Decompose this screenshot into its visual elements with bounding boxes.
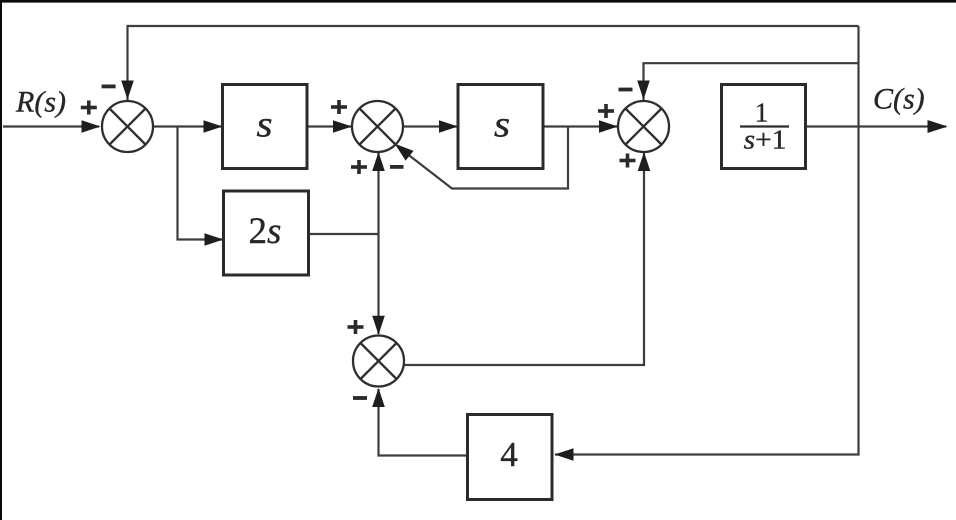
wire output C(s) <box>806 125 947 127</box>
sign plus at sum3 left <box>598 104 614 118</box>
sign plus at sum2 bottom <box>351 160 367 174</box>
wire block s2 output <box>543 125 617 127</box>
wire 2s output <box>309 233 379 235</box>
wire branch to 2s <box>178 127 223 240</box>
arrowhead up into sum4 bottom <box>372 388 385 407</box>
arrowhead into block 2s <box>205 233 224 246</box>
svg-text:1: 1 <box>755 98 769 128</box>
summing junction S1 <box>102 101 153 152</box>
svg-text:s+1: s+1 <box>744 125 787 155</box>
arrowhead into block4 <box>555 448 574 461</box>
sign plus at sum2 left <box>331 100 347 114</box>
wire sum4 output to sum3 <box>404 153 645 365</box>
frame left border <box>0 0 2 520</box>
wire sum1 output <box>153 125 221 127</box>
sign minus at sum1 top <box>102 85 116 89</box>
wire input R(s) <box>3 125 99 127</box>
arrowhead into sum1 <box>82 120 101 133</box>
wire block s1 output <box>307 125 351 127</box>
wire right feedback vertical <box>857 26 859 455</box>
arrowhead into block s2 <box>439 120 458 133</box>
wire block4 output to sum4 <box>379 389 468 456</box>
svg-text:4: 4 <box>500 435 518 474</box>
svg-text:2s: 2s <box>249 211 282 252</box>
svg-text:R(s): R(s) <box>15 86 66 119</box>
sign plus at sum3 bottom <box>620 154 636 168</box>
arrowhead into sum3 <box>599 120 618 133</box>
svg-text:s: s <box>494 104 510 145</box>
arrowhead into sum2 <box>333 120 352 133</box>
svg-text:s: s <box>256 104 272 145</box>
sign plus at sum1 input <box>81 101 97 115</box>
frame top border <box>0 0 956 3</box>
arrowhead feedback1 into sum1 top <box>121 81 134 100</box>
sign minus at sum2 bottom right <box>390 165 404 169</box>
block G1 s <box>223 85 308 169</box>
arrowhead feedback2 into sum3 top <box>637 81 650 100</box>
svg-text:C(s): C(s) <box>873 83 925 116</box>
arrowhead down into sum4 top <box>372 316 385 335</box>
summing junction S2 <box>352 101 403 152</box>
arrowhead up into sum2 bottom <box>372 152 385 171</box>
wire sum2 output <box>403 125 457 127</box>
sign minus at sum3 top <box>619 88 633 92</box>
wire feedback1 top horizontal <box>128 26 859 101</box>
arrowhead output C(s) <box>928 120 948 133</box>
summing junction S3 <box>618 101 669 152</box>
wire vertical sum2-sum4 <box>377 153 379 334</box>
arrowhead into block s1 <box>204 120 223 133</box>
block G2 s <box>458 85 543 169</box>
block G3 1/(s+1) <box>722 85 806 169</box>
wire tap to sum2 diagonal <box>397 127 568 189</box>
block H1 2s <box>224 191 309 275</box>
sign plus at sum4 top <box>348 320 364 334</box>
arrowhead diagonal into sum2 <box>391 139 414 161</box>
arrowhead up into sum3 bottom <box>638 152 651 171</box>
wire feedback2 to sum3 <box>644 63 859 102</box>
sign minus at sum4 bottom <box>353 396 367 400</box>
summing junction S4 <box>353 336 404 387</box>
block H2 4 <box>468 415 553 500</box>
wire block4 input <box>555 453 859 454</box>
